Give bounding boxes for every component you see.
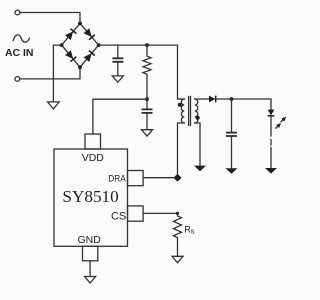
pin VDD box <box>85 134 101 149</box>
capacitor C2 <box>142 109 153 113</box>
ground secondary (under transformer) <box>194 166 206 172</box>
svg-text:AC IN: AC IN <box>5 48 34 59</box>
node bridge left <box>60 43 64 47</box>
LED emission arrow 2 <box>275 123 281 129</box>
node VDD junction <box>145 97 149 101</box>
diode D5 output rectifier <box>209 96 215 103</box>
node bridge bottom <box>78 65 82 69</box>
node rail junction <box>145 43 149 47</box>
wire GND pin to ground <box>89 261 91 276</box>
LED D6 <box>268 110 275 116</box>
ground under C2 <box>142 130 153 136</box>
svg-text:s: s <box>191 226 195 235</box>
polarity dot secondary <box>196 116 200 120</box>
terminal J1 bottom <box>15 77 20 82</box>
svg-text:SY8510: SY8510 <box>62 187 118 206</box>
svg-text:GND: GND <box>78 234 102 246</box>
capacitor C3 output <box>231 99 233 132</box>
wire bridge left node to primary ground <box>53 45 61 102</box>
polarity dot primary <box>178 103 182 107</box>
pin CS box <box>128 206 144 221</box>
node bridge right <box>97 43 101 47</box>
wire DRA to primary bottom <box>143 177 177 179</box>
wire CS to Rs <box>143 212 177 214</box>
svg-text:VDD: VDD <box>82 152 105 164</box>
ground under C3 <box>226 168 238 174</box>
pin GND box <box>83 246 98 260</box>
transformer T1 core <box>189 97 191 126</box>
wire secondary to output diode <box>195 98 209 100</box>
transformer T1 secondary winding <box>195 99 198 123</box>
ground under C1 <box>112 76 123 82</box>
diode D4 bridge lower-right <box>84 51 95 62</box>
AC source symbol <box>13 35 29 42</box>
transformer T1 primary winding <box>178 98 185 100</box>
diode D3 bridge lower-left <box>65 50 76 61</box>
diode D2 bridge upper-right <box>83 28 94 39</box>
wire VDD feed to IC top pin <box>93 99 147 134</box>
wire LED string dashed <box>270 116 272 130</box>
wire top AC line <box>20 13 80 24</box>
LED emission arrow 1 <box>281 117 287 123</box>
node bridge top <box>78 22 82 26</box>
resistor Rs <box>174 213 182 256</box>
ground under LED string <box>265 168 277 174</box>
svg-text:DRA: DRA <box>108 174 126 185</box>
svg-text:CS: CS <box>111 211 126 223</box>
wire bottom AC line <box>20 67 80 79</box>
ground under Rs <box>172 256 183 263</box>
bridge rectifier BR1 diamond <box>62 23 99 67</box>
ground under GND pin <box>85 277 96 284</box>
pin DRA box <box>128 171 144 186</box>
wire positive rail <box>99 45 178 99</box>
resistor R1 <box>143 45 151 99</box>
node CS-Rs <box>176 212 179 215</box>
wire output rail <box>216 99 271 110</box>
junction diamond DRA node <box>174 174 182 182</box>
ground primary (left) <box>48 102 60 109</box>
IC U1 SY8510 body <box>54 149 128 246</box>
capacitor C1 <box>117 45 119 58</box>
terminal J1 top <box>15 10 20 15</box>
node output junction <box>230 97 234 101</box>
diode D1 bridge upper-left <box>65 29 76 40</box>
